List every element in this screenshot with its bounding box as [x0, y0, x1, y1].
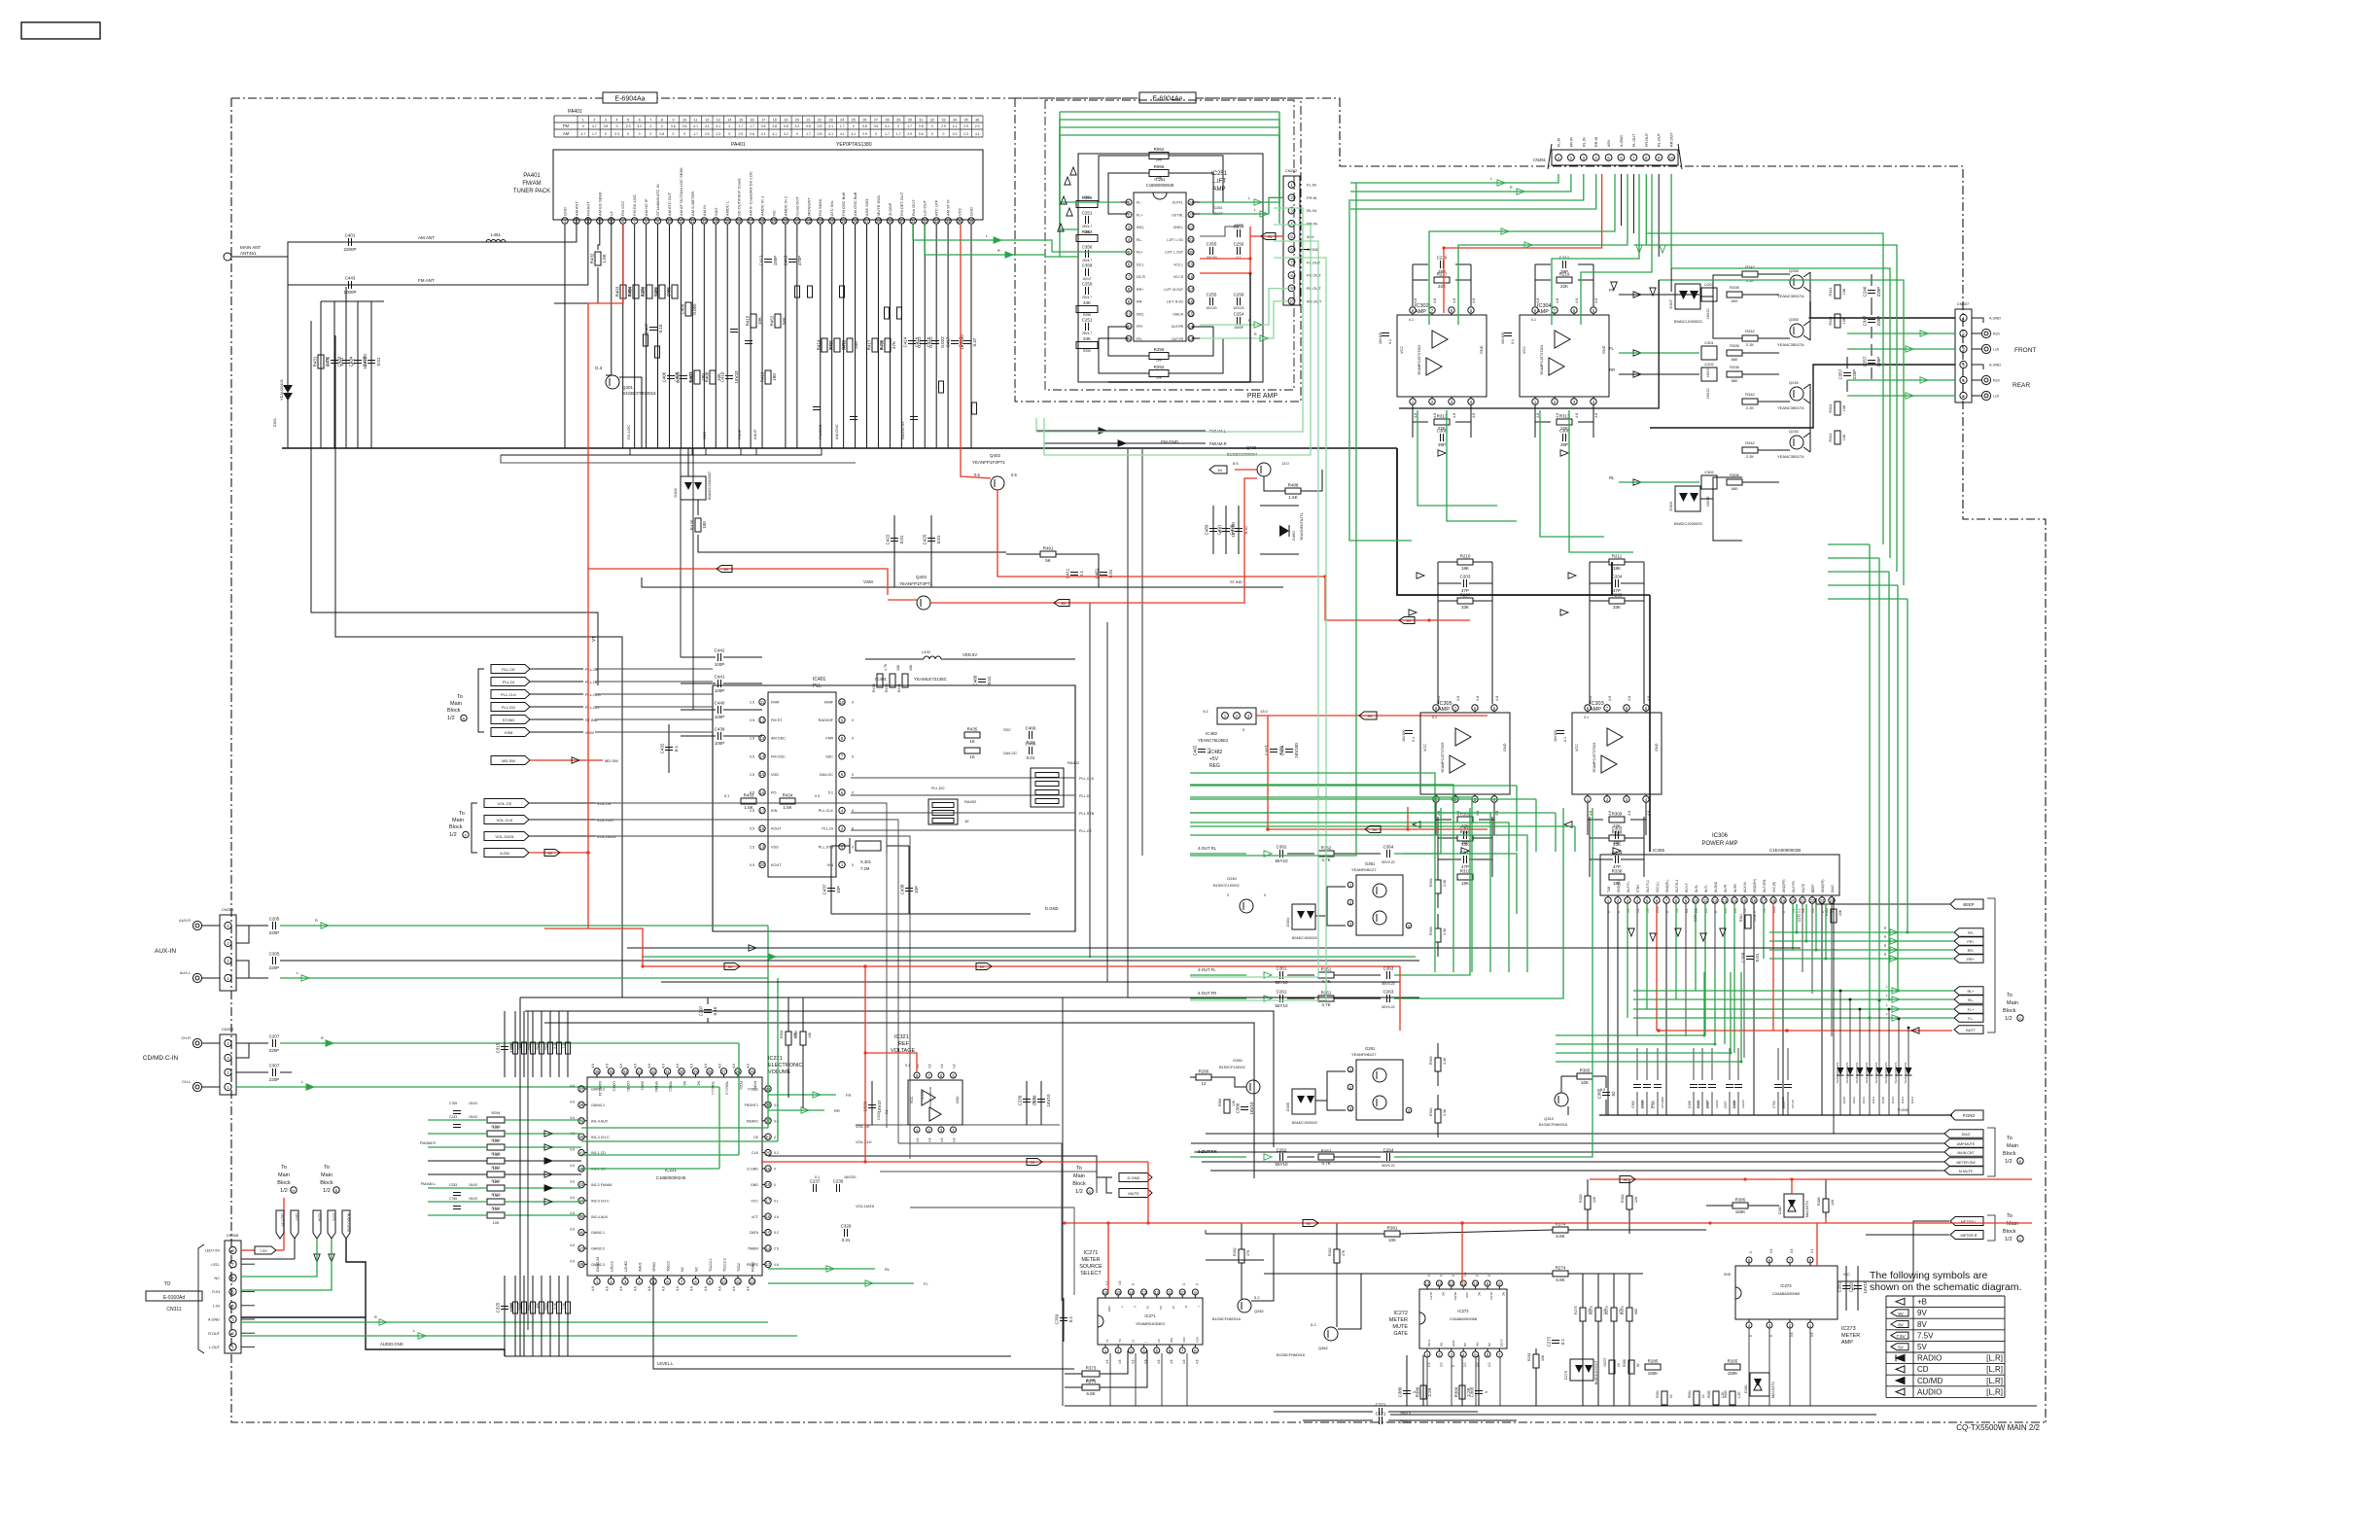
svg-text:GND: GND [1503, 743, 1507, 752]
svg-text:0: 0 [582, 124, 584, 128]
svg-text:22K: 22K [1438, 284, 1446, 289]
svg-text:10: 10 [667, 219, 672, 224]
svg-text:4.6: 4.6 [662, 1064, 666, 1068]
svg-text:FR.OUT: FR.OUT [1307, 273, 1321, 278]
svg-text:C410: C410 [720, 371, 725, 382]
svg-text:R266: R266 [1199, 1069, 1209, 1074]
svg-text:L: L [297, 971, 298, 975]
svg-text:Lch OUT: Lch OUT [923, 199, 927, 216]
svg-text:1.3: 1.3 [1427, 1362, 1431, 1367]
svg-text:17: 17 [761, 119, 765, 122]
svg-text:AM NC IF: AM NC IF [644, 198, 648, 216]
svg-text:NC: NC [682, 1081, 686, 1086]
svg-text:Block: Block [1072, 1181, 1086, 1187]
svg-text:16V33: 16V33 [734, 370, 739, 384]
svg-text:C433: C433 [337, 356, 342, 367]
svg-text:AUX-R: AUX-R [179, 919, 191, 923]
svg-text:50V0.22: 50V0.22 [1382, 1005, 1394, 1009]
svg-text:D303: D303 [1668, 501, 1673, 510]
svg-text:C207: C207 [269, 1034, 280, 1039]
svg-text:16: 16 [1189, 299, 1194, 304]
svg-text:4.6: 4.6 [634, 1286, 638, 1291]
svg-text:22K: 22K [1838, 909, 1842, 916]
svg-text:1.7: 1.7 [739, 124, 744, 128]
svg-text:IC271: IC271 [1084, 1250, 1099, 1256]
svg-text:C466: C466 [1026, 726, 1036, 731]
svg-text:YEANC3551TA: YEANC3551TA [1777, 294, 1804, 298]
svg-text:C320: C320 [877, 1112, 881, 1120]
svg-text:4.6: 4.6 [570, 1196, 575, 1200]
svg-text:FR-: FR- [1137, 337, 1143, 341]
svg-text:C409: C409 [681, 303, 685, 314]
svg-text:YEP0PTAS1380: YEP0PTAS1380 [836, 142, 872, 148]
svg-text:82: 82 [1611, 1091, 1616, 1097]
svg-text:4.1: 4.1 [705, 124, 710, 128]
svg-text:4.6: 4.6 [732, 1064, 736, 1068]
svg-text:KOUT: KOUT [771, 863, 782, 867]
svg-text:0.6: 0.6 [671, 124, 676, 128]
svg-text:C203: C203 [1460, 575, 1471, 579]
svg-text:0: 0 [774, 1136, 776, 1139]
svg-text:19: 19 [760, 845, 765, 850]
svg-text:28: 28 [886, 119, 890, 122]
svg-text:M.MUTE: M.MUTE [1959, 1170, 1974, 1173]
svg-text:27: 27 [864, 219, 869, 224]
svg-text:2.3: 2.3 [614, 132, 619, 136]
svg-text:2.2K: 2.2K [1746, 405, 1755, 410]
svg-text:R417: R417 [867, 339, 872, 350]
svg-text:FM ANT: FM ANT [585, 201, 590, 216]
svg-text:R210: R210 [1460, 554, 1471, 559]
svg-text:48: 48 [579, 1262, 584, 1267]
svg-text:L: L [1886, 1003, 1888, 1007]
svg-text:YEAMPC4573T305: YEAMPC4573T305 [1441, 743, 1445, 773]
svg-text:33: 33 [934, 219, 939, 224]
svg-text:4.6: 4.6 [1556, 298, 1559, 303]
svg-text:16: 16 [766, 1214, 771, 1219]
svg-text:G361: G361 [1365, 861, 1376, 866]
svg-text:2.3: 2.3 [963, 132, 968, 136]
svg-text:L-IN: L-IN [213, 1304, 220, 1308]
svg-text:18K: 18K [1613, 881, 1621, 886]
svg-text:Y0: Y0 [1118, 1339, 1122, 1343]
svg-text:D312: D312 [1891, 1097, 1895, 1104]
svg-text:C210: C210 [1437, 256, 1448, 261]
svg-text:4.1: 4.1 [840, 132, 845, 136]
svg-text:FM#: FM# [825, 737, 833, 741]
svg-text:34: 34 [946, 219, 951, 224]
svg-text:CD-L: CD-L [332, 1213, 336, 1221]
svg-text:Q382: Q382 [1318, 1346, 1329, 1350]
svg-text:13.0: 13.0 [1260, 709, 1269, 714]
svg-text:Block: Block [277, 1180, 291, 1186]
svg-text:22: 22 [818, 119, 822, 122]
svg-text:PLL.CE: PLL.CE [502, 667, 515, 672]
svg-text:[L,R]: [L,R] [1986, 1377, 2003, 1385]
svg-text:Q402: Q402 [990, 453, 1001, 458]
svg-text:4.6: 4.6 [1105, 1359, 1109, 1364]
svg-text:YEADSR1544TL: YEADSR1544TL [1865, 1062, 1869, 1084]
svg-text:55Y10: 55Y10 [1275, 858, 1288, 863]
svg-text:220P: 220P [269, 1048, 280, 1053]
svg-text:YEADSR1544TL: YEADSR1544TL [1836, 1062, 1839, 1084]
svg-text:25V4.7: 25V4.7 [1082, 259, 1092, 262]
svg-text:2.2K: 2.2K [1746, 454, 1755, 459]
svg-text:AM OSC Buff: AM OSC Buff [853, 192, 857, 216]
svg-text:VOL.CLK: VOL.CLK [856, 1139, 872, 1144]
svg-text:PLL.DI: PLL.DI [585, 680, 597, 684]
svg-text:0.47: 0.47 [972, 337, 977, 346]
svg-text:AM ANT: AM ANT [574, 201, 578, 216]
svg-text:18: 18 [773, 119, 777, 122]
svg-text:2LOOP: 2LOOP [888, 202, 892, 216]
svg-text:C236: C236 [833, 1179, 844, 1184]
svg-text:1/2: 1/2 [2005, 1159, 2012, 1165]
svg-text:C440: C440 [715, 701, 725, 706]
svg-text:ST1#d/AM ATC IN: ST1#d/AM ATC IN [655, 184, 660, 216]
svg-text:L: L [413, 1329, 415, 1333]
svg-text:C769: C769 [1055, 1313, 1060, 1324]
svg-text:8V: 8V [724, 568, 729, 572]
svg-text:R299: R299 [491, 1138, 500, 1142]
svg-text:MAIN ANT: MAIN ANT [240, 245, 262, 250]
svg-text:YEADSR1544TL: YEADSR1544TL [1904, 1062, 1907, 1084]
svg-text:29: 29 [896, 119, 900, 122]
svg-text:LED7.5V: LED7.5V [281, 1213, 285, 1227]
svg-text:23: 23 [829, 119, 833, 122]
svg-text:A.GND: A.GND [1620, 135, 1624, 147]
svg-text:22: 22 [1189, 225, 1194, 229]
svg-text:To: To [2007, 1136, 2012, 1141]
svg-text:R305: R305 [1730, 343, 1739, 348]
svg-text:R084: R084 [1688, 1390, 1692, 1398]
svg-text:4.1: 4.1 [828, 132, 833, 136]
svg-text:RA402: RA402 [1067, 760, 1080, 765]
svg-text:32: 32 [930, 119, 934, 122]
svg-text:13: 13 [1141, 1290, 1146, 1295]
svg-text:FM/AM.L: FM/AM.L [421, 1182, 436, 1186]
svg-text:R: R [321, 1036, 324, 1040]
svg-text:C401: C401 [345, 233, 356, 238]
svg-text:10: 10 [840, 700, 845, 705]
svg-text:R295: R295 [491, 1152, 500, 1156]
svg-text:5: 5 [627, 119, 629, 122]
svg-text:22K: 22K [1560, 284, 1568, 289]
svg-text:16V100: 16V100 [1379, 332, 1382, 344]
svg-text:CN308: CN308 [227, 1233, 239, 1238]
svg-text:G240: G240 [1227, 876, 1238, 881]
svg-text:C: C [2019, 1237, 2022, 1242]
svg-text:D307: D307 [1668, 298, 1673, 308]
svg-text:GND: GND [1480, 345, 1484, 354]
svg-text:14: 14 [760, 754, 765, 759]
svg-text:FL.IN: FL.IN [1557, 137, 1561, 147]
svg-text:16V100: 16V100 [1402, 730, 1406, 742]
svg-text:0.6: 0.6 [750, 132, 754, 136]
svg-text:CD/MD: CD/MD [1917, 1377, 1942, 1385]
svg-text:IN.GND: IN.GND [1714, 881, 1718, 892]
svg-text:0: 0 [852, 791, 854, 795]
svg-text:2.9: 2.9 [963, 124, 968, 128]
svg-text:6.8K: 6.8K [1556, 1234, 1564, 1239]
svg-text:DIAG: DIAG [1831, 885, 1835, 892]
svg-text:GND: GND [751, 1183, 758, 1187]
svg-text:28: 28 [708, 1069, 713, 1074]
svg-text:AMDC IN 1: AMDC IN 1 [760, 195, 765, 216]
svg-text:IC273: IC273 [1780, 1283, 1792, 1288]
svg-text:C263: C263 [1383, 990, 1394, 995]
svg-text:C489: C489 [1205, 524, 1209, 535]
svg-text:CN251: CN251 [1533, 157, 1547, 162]
svg-text:STBY: STBY [1636, 884, 1640, 892]
svg-text:46: 46 [579, 1230, 584, 1235]
svg-text:16: 16 [760, 790, 765, 795]
svg-text:D215: D215 [1842, 1097, 1846, 1104]
svg-text:4.6: 4.6 [916, 1137, 920, 1142]
svg-text:1/2: 1/2 [1075, 1189, 1083, 1195]
svg-text:R: R [315, 919, 318, 923]
svg-text:D213: D213 [1862, 1097, 1866, 1104]
svg-text:C366: C366 [1236, 1102, 1241, 1113]
svg-text:100: 100 [702, 521, 707, 529]
svg-text:56K: 56K [782, 317, 787, 325]
svg-text:4.6: 4.6 [718, 1286, 722, 1291]
svg-text:LED-: LED- [211, 1263, 220, 1267]
svg-text:0: 0 [1487, 1275, 1491, 1277]
svg-text:2.9: 2.9 [739, 132, 744, 136]
svg-text:RR+: RR+ [1137, 288, 1143, 292]
svg-text:0: 0 [852, 737, 854, 741]
svg-text:AMP: AMP [1438, 707, 1450, 713]
svg-text:SD OUT/FM IF Count: SD OUT/FM IF Count [737, 178, 742, 216]
svg-text:1203P: 1203P [1715, 1100, 1719, 1108]
svg-text:15: 15 [1742, 898, 1747, 903]
svg-text:R342: R342 [1745, 329, 1755, 333]
svg-text:25V4.7: 25V4.7 [1082, 332, 1092, 335]
svg-text:19: 19 [772, 219, 777, 224]
svg-text:AM.IF: AM.IF [752, 429, 757, 439]
svg-text:12: 12 [705, 119, 709, 122]
svg-text:3.2: 3.2 [953, 132, 958, 136]
svg-text:0.15: 0.15 [658, 324, 663, 332]
svg-text:TOLC2: TOLC2 [667, 1261, 671, 1272]
svg-text:9.1K: 9.1K [553, 1302, 557, 1309]
svg-text:33: 33 [941, 119, 945, 122]
svg-text:17: 17 [760, 808, 765, 813]
svg-text:C259: C259 [1234, 293, 1244, 297]
svg-text:RL.OUT: RL.OUT [1307, 286, 1321, 291]
svg-text:C365: C365 [1631, 1101, 1635, 1108]
svg-text:1/2: 1/2 [2005, 1237, 2012, 1242]
svg-text:Block: Block [320, 1180, 333, 1186]
svg-text:13.0: 13.0 [1281, 461, 1290, 466]
svg-text:YEANC3551TA: YEANC3551TA [1777, 454, 1804, 459]
svg-text:16V10: 16V10 [1249, 1102, 1254, 1115]
svg-text:31: 31 [919, 119, 923, 122]
svg-text:D212: D212 [1852, 1097, 1856, 1104]
svg-text:E-6904Aa: E-6904Aa [614, 96, 645, 103]
svg-text:D214: D214 [1872, 1097, 1875, 1104]
svg-text:220P: 220P [1852, 369, 1857, 380]
svg-text:16V10: 16V10 [469, 1102, 477, 1105]
svg-text:FR.IN: FR.IN [1569, 137, 1573, 147]
svg-text:R294: R294 [491, 1111, 500, 1115]
svg-text:AM AF OUT/AM LOC SEEK: AM AF OUT/AM LOC SEEK [679, 167, 683, 216]
svg-text:VOLUME: VOLUME [768, 1069, 791, 1075]
svg-text:1/2: 1/2 [280, 1188, 288, 1194]
svg-text:AUX-IN: AUX-IN [155, 948, 176, 955]
svg-text:R344: R344 [1829, 287, 1833, 296]
svg-text:FM SEEK: FM SEEK [818, 198, 822, 216]
svg-text:4.6: 4.6 [1495, 696, 1499, 701]
svg-text:TOLC1-2: TOLC1-2 [725, 1081, 729, 1095]
svg-text:C466: C466 [1026, 742, 1036, 747]
svg-text:FR+: FR+ [1137, 325, 1143, 329]
svg-text:C246: C246 [1863, 286, 1868, 297]
svg-text:IN2-3 CH-C: IN2-3 CH-C [591, 1199, 610, 1203]
svg-text:DA/LOC: DA/LOC [1003, 752, 1017, 755]
svg-text:4.1: 4.1 [953, 124, 958, 128]
svg-text:680: 680 [1634, 1309, 1638, 1314]
svg-text:VOL.CLK: VOL.CLK [497, 818, 513, 822]
svg-text:R329: R329 [544, 1303, 548, 1311]
svg-text:9V: 9V [1031, 1161, 1035, 1165]
svg-text:4.6: 4.6 [570, 1243, 575, 1247]
svg-text:16: 16 [751, 119, 754, 122]
svg-text:CN252: CN252 [1285, 168, 1298, 173]
svg-text:9.1: 9.1 [1810, 1248, 1814, 1253]
svg-text:C358: C358 [1082, 263, 1093, 268]
svg-text:REAR: REAR [2012, 382, 2030, 389]
svg-text:C957: C957 [1782, 1101, 1786, 1108]
svg-text:IC272: IC272 [1457, 1309, 1469, 1313]
svg-text:X.401: X.401 [860, 859, 872, 864]
svg-text:L: L [301, 1080, 303, 1084]
svg-text:12: 12 [690, 219, 695, 224]
svg-text:14: 14 [714, 219, 718, 224]
svg-text:18K: 18K [1461, 566, 1469, 571]
svg-text:3.3K: 3.3K [1443, 879, 1447, 887]
svg-text:L1FT. M.OUT: L1FT. M.OUT [1164, 288, 1183, 292]
svg-text:R435: R435 [967, 727, 978, 732]
svg-text:R262: R262 [1321, 1149, 1332, 1154]
svg-text:ELECTRONIC: ELECTRONIC [768, 1063, 802, 1068]
svg-text:IC273: IC273 [1841, 1326, 1856, 1332]
svg-text:GND.L: GND.L [1173, 226, 1183, 229]
svg-text:KOUT: KOUT [771, 827, 782, 831]
svg-text:shown on the schematic diagram: shown on the schematic diagram. [1870, 1281, 2021, 1293]
svg-text:Main: Main [2007, 1221, 2018, 1227]
svg-text:L: L [1254, 208, 1256, 212]
svg-text:FR+: FR+ [1967, 940, 1975, 944]
svg-text:4.6: 4.6 [953, 1064, 957, 1068]
svg-text:17: 17 [749, 219, 753, 224]
svg-text:21: 21 [1801, 898, 1805, 903]
svg-text:AMDC L: AMDC L [725, 200, 730, 216]
svg-text:R: R [997, 249, 1000, 253]
svg-text:4.6: 4.6 [940, 1137, 944, 1142]
svg-text:R274: R274 [1556, 1266, 1566, 1271]
svg-text:YEADSR1544TL: YEADSR1544TL [1845, 1062, 1849, 1084]
svg-text:R270: R270 [1605, 1306, 1609, 1314]
svg-text:C308: C308 [1559, 429, 1570, 434]
svg-text:36: 36 [595, 1069, 600, 1074]
svg-text:34: 34 [953, 119, 957, 122]
svg-text:16V220: 16V220 [844, 1175, 856, 1179]
svg-text:5.2: 5.2 [774, 1231, 779, 1235]
svg-text:12: 12 [750, 1279, 754, 1284]
svg-text:5K: 5K [1045, 558, 1051, 563]
svg-text:R410: R410 [760, 371, 765, 382]
svg-text:C329: C329 [841, 1224, 852, 1229]
svg-text:YEAMLE72135C: YEAMLE72135C [914, 677, 948, 682]
svg-text:1K: 1K [969, 754, 975, 759]
svg-text:R383: R383 [1579, 1194, 1583, 1203]
svg-text:14: 14 [1701, 1394, 1705, 1398]
svg-text:1.7: 1.7 [896, 132, 901, 136]
svg-text:11: 11 [1168, 1290, 1172, 1295]
svg-text:C957: C957 [1724, 1101, 1728, 1108]
svg-text:43: 43 [579, 1182, 584, 1187]
svg-text:L451: L451 [491, 232, 502, 237]
svg-text:KIN: KIN [771, 809, 778, 813]
svg-text:4.6: 4.6 [570, 1259, 575, 1263]
svg-text:4.6: 4.6 [1594, 298, 1598, 303]
svg-text:2.5: 2.5 [750, 845, 754, 849]
svg-text:R361: R361 [1739, 914, 1743, 922]
svg-text:23: 23 [1189, 213, 1194, 218]
svg-text:METER.SW: METER.SW [1956, 1161, 1976, 1165]
svg-text:L: L [986, 234, 988, 238]
svg-text:0.1: 0.1 [1560, 1338, 1565, 1345]
svg-text:4.6: 4.6 [732, 1286, 736, 1291]
svg-text:VCC: VCC [1182, 1336, 1186, 1343]
svg-text:30: 30 [899, 219, 904, 224]
svg-text:PLL: PLL [813, 683, 822, 689]
svg-text:B: B [1184, 1306, 1188, 1308]
svg-text:0.5: 0.5 [750, 863, 754, 867]
svg-text:R228: R228 [536, 1042, 540, 1050]
svg-text:D261: D261 [1744, 1384, 1748, 1393]
svg-text:L432: L432 [922, 649, 931, 654]
svg-text:220P: 220P [269, 1077, 280, 1082]
svg-text:20: 20 [760, 862, 765, 867]
svg-text:ATC LPF: ATC LPF [934, 199, 939, 216]
svg-text:3.3K: 3.3K [1443, 927, 1447, 935]
svg-text:10: 10 [1289, 299, 1294, 304]
svg-text:4.6: 4.6 [619, 1064, 623, 1068]
svg-text:Lch: Lch [1993, 348, 1999, 352]
svg-text:C370 0.1: C370 0.1 [1694, 908, 1697, 922]
svg-text:BEEP: BEEP [1811, 884, 1815, 892]
svg-text:Z1: Z1 [1172, 1306, 1175, 1310]
svg-text:C462: C462 [1193, 745, 1198, 755]
svg-text:SOURCE: SOURCE [1079, 1264, 1102, 1270]
svg-text:4.6: 4.6 [1118, 1280, 1122, 1285]
svg-text:0: 0 [639, 132, 641, 136]
svg-text:R323: R323 [491, 1193, 500, 1197]
svg-text:7.5K: 7.5K [562, 1041, 566, 1048]
svg-text:24: 24 [829, 219, 834, 224]
svg-text:R273: R273 [1086, 1380, 1097, 1384]
svg-text:B0ADCJX00007: B0ADCJX00007 [707, 471, 712, 500]
svg-text:PA401: PA401 [523, 173, 541, 179]
svg-text:15: 15 [1116, 1290, 1121, 1295]
svg-text:9V: 9V [1624, 1178, 1628, 1182]
svg-text:470P: 470P [797, 256, 802, 266]
svg-text:A9V: A9V [1607, 139, 1611, 147]
svg-text:Block: Block [2003, 1151, 2016, 1157]
